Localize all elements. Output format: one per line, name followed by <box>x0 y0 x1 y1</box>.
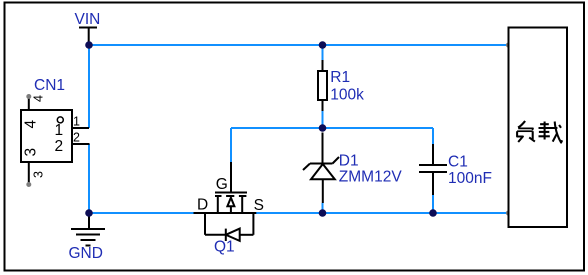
svg-text:C1: C1 <box>448 154 468 171</box>
svg-text:D: D <box>197 197 208 214</box>
svg-text:3: 3 <box>22 148 39 157</box>
svg-text:S: S <box>254 197 264 214</box>
svg-text:Q1: Q1 <box>214 239 235 256</box>
svg-text:2: 2 <box>73 131 80 145</box>
svg-text:CN1: CN1 <box>34 77 65 94</box>
svg-text:3: 3 <box>31 171 45 178</box>
svg-text:GND: GND <box>69 245 103 262</box>
svg-text:100k: 100k <box>330 87 364 104</box>
svg-text:G: G <box>216 176 228 193</box>
svg-text:4: 4 <box>31 95 45 102</box>
svg-text:100nF: 100nF <box>448 170 492 187</box>
svg-text:4: 4 <box>22 120 39 129</box>
svg-text:R1: R1 <box>330 69 350 86</box>
svg-text:VIN: VIN <box>75 11 101 28</box>
svg-text:2: 2 <box>55 138 64 155</box>
svg-text:1: 1 <box>73 115 80 129</box>
svg-text:1: 1 <box>55 122 64 139</box>
svg-text:D1: D1 <box>339 153 359 170</box>
svg-text:ZMM12V: ZMM12V <box>339 169 403 186</box>
